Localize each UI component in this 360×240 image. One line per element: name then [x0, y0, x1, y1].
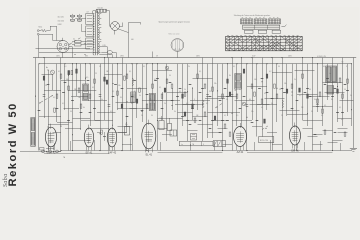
electrolytic capacitors [124, 116, 171, 135]
svg-text:0,1: 0,1 [199, 71, 201, 73]
svg-text:40: 40 [249, 99, 251, 101]
terminal strip [179, 142, 213, 146]
svg-text:0,3: 0,3 [64, 66, 66, 68]
wire mains loop [50, 26, 57, 41]
svg-text:5k: 5k [279, 89, 281, 91]
svg-text:S: S [203, 144, 204, 146]
svg-text:5: 5 [194, 99, 195, 101]
svg-text:EAF 42: EAF 42 [108, 152, 117, 155]
svg-text:110 125: 110 125 [58, 17, 64, 19]
transformer T1 [93, 11, 101, 55]
svg-text:50k: 50k [66, 79, 69, 81]
svg-text:30: 30 [134, 91, 136, 93]
svg-text:0,1: 0,1 [73, 39, 75, 41]
svg-text:10k: 10k [284, 83, 287, 85]
rectifier socket plug [53, 38, 69, 53]
table tick labels [227, 35, 299, 37]
connector block [191, 134, 197, 141]
svg-text:0,1: 0,1 [321, 115, 323, 117]
interstage cluster [39, 117, 127, 142]
svg-text:2k: 2k [188, 66, 190, 68]
svg-text:B250 C90: B250 C90 [260, 140, 268, 142]
svg-text:0,5: 0,5 [239, 89, 241, 91]
svg-text:50: 50 [151, 115, 153, 117]
svg-text:0,1: 0,1 [131, 103, 133, 105]
svg-text:25: 25 [95, 73, 97, 75]
svg-text:EF 41: EF 41 [86, 152, 93, 155]
field coil [327, 86, 334, 95]
fuse block left [170, 130, 177, 136]
svg-text:10k: 10k [251, 111, 254, 113]
lower link wires [53, 127, 348, 145]
svg-text:5k: 5k [101, 99, 103, 101]
svg-text:5: 5 [346, 66, 347, 68]
svg-text:2k: 2k [45, 85, 47, 87]
AVC bus [39, 63, 352, 65]
svg-text:0,1: 0,1 [224, 115, 226, 117]
svg-text:50: 50 [70, 111, 72, 113]
svg-text:5k: 5k [271, 103, 273, 105]
wire horizontal links [36, 49, 354, 133]
svg-text:4 250V 6,3V: 4 250V 6,3V [317, 56, 327, 58]
IF transformer 2 [149, 94, 155, 111]
svg-text:20k: 20k [214, 83, 217, 85]
waveband switch [39, 95, 52, 103]
bottom wire left [20, 151, 122, 154]
bottom wire middle [122, 151, 232, 153]
svg-text:8k: 8k [229, 75, 231, 77]
fuse [93, 6, 110, 12]
svg-text:0,1: 0,1 [339, 107, 341, 109]
svg-text:0,1: 0,1 [324, 105, 326, 107]
svg-text:50: 50 [169, 75, 171, 77]
svg-text:5k: 5k [174, 111, 176, 113]
right header text [317, 56, 343, 64]
svg-text:0,2: 0,2 [186, 103, 188, 105]
HT supply bus [33, 57, 356, 59]
note text middle [159, 22, 190, 24]
svg-text:AZ 41: AZ 41 [237, 151, 244, 154]
tube V5 AZ41 [234, 123, 247, 154]
svg-text:0,1: 0,1 [291, 95, 293, 97]
dimension bracket [129, 22, 153, 57]
svg-text:0,1: 0,1 [58, 71, 60, 73]
trimmer screws [50, 66, 245, 106]
svg-text:50: 50 [309, 89, 311, 91]
type label box [259, 137, 274, 143]
wire vertical drops [36, 57, 353, 150]
svg-text:0,5: 0,5 [236, 115, 238, 117]
voltage selector caption [58, 17, 64, 27]
bottom terminal dots [43, 150, 333, 151]
brand label Saba [3, 173, 9, 187]
output stage cluster [313, 130, 348, 143]
svg-text:6k: 6k [83, 107, 85, 109]
svg-text:10: 10 [99, 66, 101, 68]
voltage labels above bus [56, 56, 293, 58]
svg-text:0,1: 0,1 [323, 66, 325, 68]
svg-text:50µ: 50µ [125, 124, 128, 126]
tube V4 EL41 [142, 120, 156, 157]
svg-text:2k: 2k [294, 79, 296, 81]
svg-text:10k: 10k [118, 85, 121, 87]
svg-text:0,1: 0,1 [179, 91, 181, 93]
svg-text:2k: 2k [164, 103, 166, 105]
coupling coil [131, 92, 136, 103]
wire selector feed [75, 19, 84, 32]
primary resistors [72, 39, 93, 46]
ground symbol right [350, 147, 357, 152]
paper background [0, 0, 360, 190]
svg-text:0,5: 0,5 [86, 77, 88, 79]
svg-text:5k: 5k [314, 99, 316, 101]
tube V6 EM71 [290, 123, 301, 153]
svg-text:1k: 1k [184, 89, 186, 91]
svg-text:Rekord W 50: Rekord W 50 [7, 102, 19, 186]
thermo fuse [101, 51, 116, 58]
svg-text:0,1: 0,1 [143, 66, 145, 68]
antenna coil [31, 118, 36, 147]
note text right [234, 14, 270, 17]
tube V2 EF41 [84, 125, 93, 155]
pickup jack cluster [40, 148, 66, 159]
svg-text:0,5: 0,5 [264, 93, 266, 95]
svg-text:0,1: 0,1 [159, 87, 161, 89]
tube cathode wires [51, 149, 295, 153]
dial lamp [110, 11, 124, 35]
svg-text:La: La [181, 144, 183, 146]
svg-text:0,1: 0,1 [206, 103, 208, 105]
output socket box [213, 141, 225, 147]
driver cluster [251, 119, 268, 130]
svg-text:0,2: 0,2 [269, 71, 271, 73]
svg-text:20: 20 [216, 107, 218, 109]
svg-text:0,1: 0,1 [129, 71, 131, 73]
component value labels [45, 66, 352, 121]
svg-text:0,2: 0,2 [62, 103, 64, 105]
svg-text:25: 25 [281, 115, 283, 117]
svg-text:Spannungen gemessen gegen Chas: Spannungen gemessen gegen Chassis [159, 22, 190, 24]
svg-text:50: 50 [311, 111, 313, 113]
switch dashes plug [69, 38, 80, 45]
antenna terminal [37, 26, 50, 58]
resistors [43, 69, 348, 113]
svg-text:5k: 5k [350, 95, 352, 97]
svg-text:0,1: 0,1 [92, 87, 94, 89]
svg-text:0,3: 0,3 [154, 79, 156, 81]
tube V3 EAF42 [107, 125, 116, 155]
svg-text:50µ: 50µ [160, 118, 163, 120]
tube V1 ECH42 [45, 124, 56, 155]
voltage selector plate [70, 14, 81, 22]
svg-text:0,2: 0,2 [110, 111, 112, 113]
svg-text:440: 440 [131, 39, 134, 41]
svg-text:0,5: 0,5 [149, 99, 151, 101]
pushbutton contact table [226, 36, 303, 50]
transformer top wire [93, 9, 97, 13]
svg-text:Ls: Ls [329, 73, 331, 75]
svg-text:2k: 2k [226, 99, 228, 101]
bottom wire right [232, 151, 352, 153]
svg-text:5k: 5k [139, 95, 141, 97]
svg-text:EL 41: EL 41 [146, 153, 153, 156]
bottom stub wires [55, 138, 341, 151]
svg-text:0,1: 0,1 [112, 91, 114, 93]
AF stage cluster [178, 104, 231, 137]
oscillator coil [235, 74, 241, 90]
svg-text:EM 71: EM 71 [291, 150, 299, 153]
svg-text:10: 10 [344, 89, 346, 91]
junction dots [35, 78, 352, 136]
right border wire [353, 58, 355, 147]
zigzag resistor [132, 78, 284, 108]
magic eye top view EM71 [169, 33, 184, 58]
svg-text:50: 50 [278, 66, 280, 68]
capacitors [38, 79, 349, 121]
pushbutton switch unit [241, 18, 287, 34]
output transformer [326, 66, 337, 83]
svg-text:0,2: 0,2 [299, 95, 301, 97]
svg-text:25: 25 [209, 91, 211, 93]
svg-text:30: 30 [120, 97, 122, 99]
IF transformer 1 [83, 84, 89, 101]
svg-text:0,1: 0,1 [233, 66, 235, 68]
wire lamp to bus [118, 23, 128, 58]
svg-text:0,1: 0,1 [261, 107, 263, 109]
transformer winding boxes [84, 12, 93, 49]
svg-text:0,1: 0,1 [53, 97, 55, 99]
svg-text:100: 100 [254, 79, 257, 81]
wire plug to bus [63, 47, 73, 58]
heater wires [63, 45, 113, 58]
svg-text:90: 90 [342, 62, 344, 64]
svg-text:0,9: 0,9 [87, 12, 89, 14]
svg-text:150 220: 150 220 [58, 20, 64, 22]
model label Rekord W 50 [7, 102, 19, 186]
svg-text:0,2: 0,2 [341, 119, 343, 121]
svg-text:2k: 2k [141, 115, 143, 117]
svg-text:Netz: Netz [39, 26, 43, 29]
svg-text:8k: 8k [331, 99, 333, 101]
